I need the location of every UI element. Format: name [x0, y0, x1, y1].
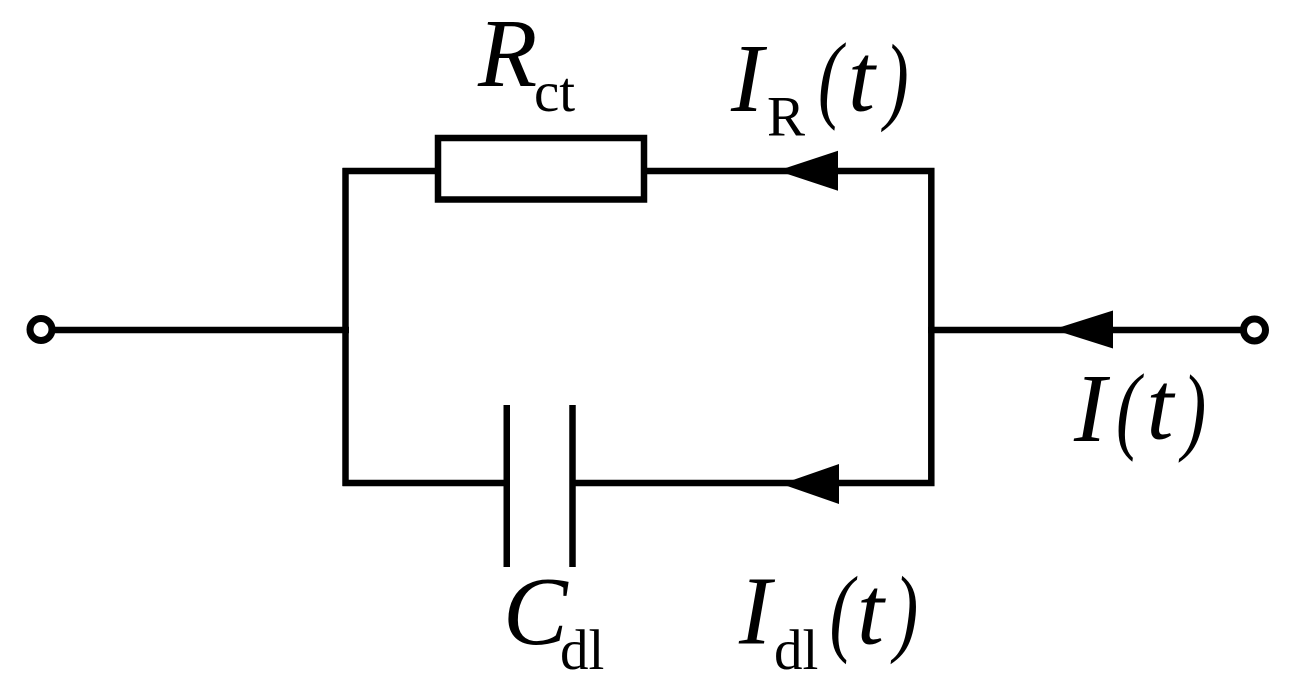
svg-text:(: (: [818, 24, 846, 131]
svg-text:dl: dl: [774, 619, 818, 682]
svg-text:): ): [1178, 356, 1206, 463]
svg-text:(: (: [1116, 355, 1144, 462]
svg-text:I: I: [730, 25, 768, 132]
svg-text:R: R: [767, 86, 805, 149]
svg-text:(: (: [830, 557, 858, 664]
svg-text:R: R: [477, 0, 537, 107]
svg-text:I: I: [1073, 355, 1111, 462]
svg-text:): ): [880, 26, 908, 133]
svg-text:t: t: [848, 25, 877, 132]
svg-text:t: t: [857, 558, 886, 665]
svg-text:ct: ct: [534, 61, 575, 124]
svg-text:dl: dl: [560, 619, 604, 682]
svg-text:): ): [890, 557, 918, 664]
svg-text:I: I: [738, 558, 776, 665]
svg-text:t: t: [1147, 353, 1176, 460]
